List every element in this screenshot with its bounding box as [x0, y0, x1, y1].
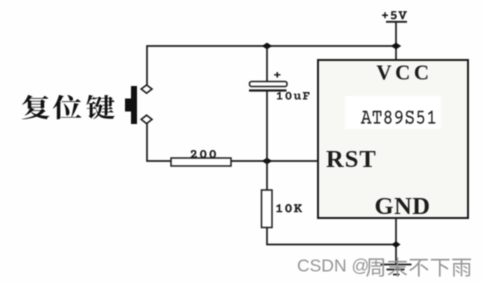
resistor R2 value 10K [276, 204, 302, 212]
svg-text:RST: RST [326, 146, 377, 173]
ground symbol [381, 265, 412, 275]
IC U1 AT89S51 body [318, 60, 468, 218]
capacitor C1 top plate [250, 82, 288, 87]
junction at RST node [262, 158, 272, 165]
IC label background [345, 96, 441, 129]
wire +5V to top rail [395, 22, 397, 60]
wire top rail [147, 46, 396, 85]
resistor R1 value 200 [191, 150, 216, 158]
svg-text:GND: GND [375, 193, 431, 220]
wire R2 to ground rail [267, 228, 396, 245]
junction at +5V [391, 43, 401, 50]
capacitor C1 polarity + [274, 72, 281, 78]
wire button bottom to resistor row [147, 124, 171, 161]
+5V supply label [382, 11, 407, 19]
wire GND pin [395, 218, 397, 265]
button terminal top [141, 85, 152, 93]
resistor R1 200 body [171, 158, 231, 166]
svg-text:VCC: VCC [376, 60, 432, 84]
+5V rail bar [386, 21, 407, 23]
wire R1 to RST node [231, 160, 318, 162]
push button 复位键: actuator bar [131, 86, 137, 124]
capacitor C1 bottom plate [249, 89, 287, 91]
junction at cap top [262, 43, 272, 50]
wire capacitor to RST node [266, 91, 268, 191]
wire top rail to capacitor [266, 46, 268, 82]
label 复位键 (reset key) [22, 95, 115, 119]
IC part number AT89S51 [361, 111, 436, 124]
resistor R2 10K body [262, 190, 273, 228]
watermark CSDN @周末不下雨 [297, 256, 471, 277]
capacitor C1 value 10uF [277, 92, 310, 100]
push button plunger nub [125, 99, 132, 112]
junction at ground rail [392, 241, 401, 248]
svg-text:CSDN @: CSDN @ [297, 256, 369, 276]
button terminal bottom [141, 115, 152, 123]
